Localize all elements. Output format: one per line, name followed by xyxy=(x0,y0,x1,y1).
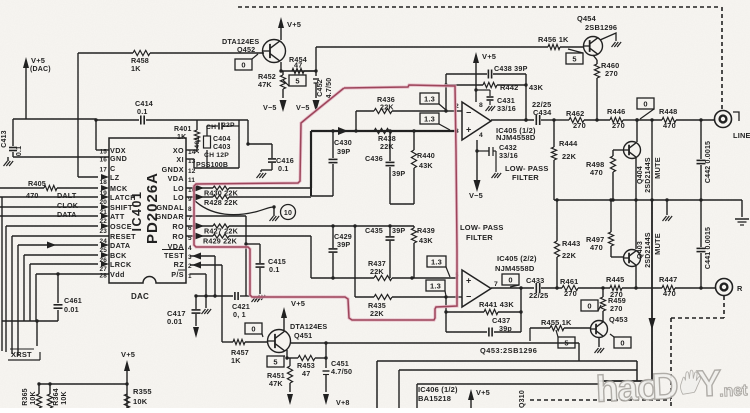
signal XRST xyxy=(8,349,40,360)
capacitor C413 0.1 xyxy=(1,130,23,156)
resistor R458 1K xyxy=(131,50,150,73)
resistor R365 10K xyxy=(22,384,42,408)
capacitor C429 39P xyxy=(329,224,352,279)
capacitor C432 33/16 xyxy=(475,143,518,172)
flag 5 (Q454) xyxy=(566,49,583,64)
V+5 arrow (IC406) xyxy=(468,388,490,408)
capacitor C430 39P xyxy=(329,129,352,196)
resistor R430 22K xyxy=(186,185,311,198)
ground xyxy=(486,106,496,111)
capacitor C442 0.0015 xyxy=(697,118,713,200)
wire Q454 emitter to line xyxy=(595,118,598,121)
flag 5 (R455) xyxy=(556,330,575,348)
transistor Q454 2SB1296 xyxy=(577,14,617,56)
capacitor C431 33/16 xyxy=(474,88,516,113)
IC401 left pin labels xyxy=(99,146,136,280)
wire op1 output xyxy=(491,118,534,121)
dashed boundary (bottom) xyxy=(530,399,671,401)
transistor Q404 2SD2144S (MUTE) xyxy=(613,118,662,200)
ground xyxy=(256,295,266,300)
wire xyxy=(37,382,128,385)
wire node xyxy=(194,294,233,308)
flag 0 (op2 out) xyxy=(502,274,519,287)
flag 1.3 (op2 minus) xyxy=(426,280,446,296)
label Q310 xyxy=(519,390,526,408)
capacitor C417 0.01 xyxy=(167,296,201,338)
wire Q403 emitter node xyxy=(634,286,637,289)
ground xyxy=(202,309,212,314)
wire BCK xyxy=(24,252,109,258)
resistor R446 270 xyxy=(607,107,637,130)
wire xyxy=(2,272,60,346)
flag 0 (line1) xyxy=(637,98,654,119)
resistor R440 43K xyxy=(390,129,435,204)
flag 0 (R459) xyxy=(581,300,601,311)
capacitor C421 0.1 xyxy=(232,292,252,319)
arc wire from pin 8 xyxy=(193,199,276,216)
IC401 right pin labels xyxy=(156,146,196,280)
capacitor C436 39P xyxy=(365,129,405,204)
transistor Q451 DTA124ES xyxy=(268,322,328,353)
crystal X401 xyxy=(194,126,211,168)
resistor R445 270 xyxy=(606,275,662,299)
capacitor C437 39p xyxy=(446,316,521,337)
capacitor C461 0.01 xyxy=(54,296,82,314)
signal DALT xyxy=(0,191,109,200)
resistor R437 22K xyxy=(311,236,458,281)
transistor Q403 2SD2144S (MUTE) xyxy=(624,200,663,287)
resistor R355 10K xyxy=(124,387,151,408)
red highlight path xyxy=(194,85,457,320)
flag 5 (Q451) xyxy=(267,356,285,367)
resistor R429 22K xyxy=(186,233,311,246)
resistor R401 1K xyxy=(174,120,200,150)
capacitor C451 4.7/50 xyxy=(323,341,353,407)
flag 1.3 (op1 plus) xyxy=(420,113,450,130)
op-amp U1 IC405 1/2 xyxy=(455,102,536,142)
wire GNDAR xyxy=(186,216,246,296)
wire LO to filter (thick) xyxy=(311,127,458,196)
resistor R442 43K xyxy=(444,74,543,122)
wire box2 xyxy=(399,370,637,408)
resistor R443 22K xyxy=(554,198,580,287)
resistor R497 470 xyxy=(586,198,624,257)
ground xyxy=(492,173,502,178)
capacitor C415 0.1 xyxy=(256,257,286,274)
V+5 arrow (bottom) xyxy=(121,350,135,408)
wire R427 node xyxy=(353,224,414,297)
wire xyxy=(244,242,260,294)
transistor Q452 DTA124ES xyxy=(222,37,286,63)
wire DATA pin25 xyxy=(18,242,109,249)
capacitor C416 0.1 xyxy=(268,156,294,173)
scan noise overlay xyxy=(0,0,1,1)
capacitor C414 0.1 xyxy=(135,99,153,125)
ground xyxy=(257,173,267,178)
capacitor C433 22/25 xyxy=(526,276,562,300)
resistor R364 10K xyxy=(47,384,68,408)
resistor R439 43K xyxy=(411,226,435,278)
left bus verticals xyxy=(2,197,36,356)
wire xyxy=(78,53,264,177)
wire Q451 emitter xyxy=(285,350,298,360)
ground (earth) xyxy=(735,219,749,225)
resistor R427 22K xyxy=(186,223,355,236)
ground bus wire xyxy=(554,198,742,215)
V+5 arrow (Q451) xyxy=(281,299,305,330)
resistor R436 22K xyxy=(354,95,446,133)
resistor R461 270 xyxy=(560,277,610,298)
DAC IC401 PD2026A xyxy=(109,138,186,301)
ground xyxy=(612,42,622,47)
flag 0 (Q452 base) xyxy=(235,54,258,70)
V+5 (DAC) supply arrow xyxy=(23,56,51,119)
wire RESET xyxy=(12,235,109,237)
label low-pass filter 1 xyxy=(505,164,549,182)
ground xyxy=(270,216,280,221)
wire OSCE xyxy=(6,223,109,229)
resistor R438 22K xyxy=(374,128,396,151)
op-amp U2 IC405 2/2 xyxy=(455,254,537,307)
resistor R447 470 xyxy=(659,275,715,298)
wire xyxy=(246,142,272,172)
signal DATA xyxy=(0,210,109,219)
wire mute line down xyxy=(651,120,653,200)
wire to R456 xyxy=(316,46,548,48)
resistor R454 47 xyxy=(289,55,316,74)
wire feedback2 xyxy=(519,286,522,332)
wire box1 xyxy=(377,361,637,408)
wire xyxy=(94,118,248,150)
MCK arrow xyxy=(101,185,109,191)
ground xyxy=(252,297,262,302)
label Q453 2SB1296 xyxy=(480,346,537,355)
resistor R405 470 xyxy=(0,179,98,200)
dashed boundary (right bottom) xyxy=(671,296,724,408)
flag 0 (Q451 base) xyxy=(245,323,263,337)
resistor R448 470 xyxy=(635,107,714,130)
capacitor C404 22P xyxy=(206,122,239,143)
capacitor C438 39P xyxy=(446,64,528,79)
wire xyxy=(279,62,317,73)
resistor R435 22K xyxy=(355,294,446,318)
flag 1.3 (op1 minus) xyxy=(420,93,446,110)
capacitor C441 0.0015 xyxy=(697,200,713,290)
label low-pass filter 2 xyxy=(460,223,504,242)
resistor R498 470 xyxy=(586,150,616,200)
wire op1 minus xyxy=(444,74,462,113)
wire xyxy=(741,200,743,217)
V-5 arrow (op1 pin4) xyxy=(469,140,483,200)
resistor R456 1K xyxy=(538,35,583,50)
flag 0 (Q453) xyxy=(610,334,631,348)
jack LINE L xyxy=(715,111,750,141)
ground xyxy=(663,216,673,221)
V+5 arrow (op1) xyxy=(473,52,496,102)
LZ arrow xyxy=(78,174,109,180)
signal CLOK xyxy=(0,201,109,210)
resistor R460 270 xyxy=(593,55,619,120)
node 10 (circled) xyxy=(281,205,296,220)
wire op2 output xyxy=(491,287,534,289)
wire Q454 collector to ground xyxy=(600,33,616,41)
wire mute2 down with arrow xyxy=(599,200,656,381)
wire xyxy=(186,120,248,168)
watermark haoDIY.net xyxy=(595,361,749,410)
capacitor C434 22/25 xyxy=(532,100,554,125)
resistor R428 22K xyxy=(186,194,311,208)
resistor R444 22K xyxy=(551,118,578,200)
resistor R455 1K xyxy=(530,318,590,341)
flag 1.3 (op2 plus) xyxy=(427,256,450,277)
capacitor C452 4.7/50 xyxy=(296,47,333,112)
wire op2 minus xyxy=(444,295,462,332)
ground xyxy=(595,348,605,353)
wire Vdd xyxy=(36,273,109,275)
dashed boundary (top) xyxy=(238,7,722,110)
transistor Q453 2SB1296 xyxy=(591,315,628,347)
IC406 box xyxy=(417,384,600,408)
V+5 arrow (Q452) xyxy=(278,17,301,40)
resistor R457 1K xyxy=(222,339,267,365)
wire RZ xyxy=(190,262,222,343)
resistor R462 270 xyxy=(554,109,610,130)
flag 5 (Q452) xyxy=(283,75,306,86)
capacitor C435 39P xyxy=(365,224,405,278)
jack LINE R xyxy=(716,279,744,296)
capacitor C403 12P xyxy=(196,144,231,169)
wire xyxy=(8,119,109,161)
wire TEST xyxy=(190,253,215,297)
ground xyxy=(4,161,14,166)
wire LRCK xyxy=(30,261,109,267)
resistor R459 270 and Q453 collector xyxy=(600,286,626,321)
resistor R451 47K xyxy=(267,358,293,405)
resistor R441 43K xyxy=(444,300,521,315)
wire Q451 collector line xyxy=(291,343,579,361)
resistor R453 47 xyxy=(297,355,326,378)
wire P/S xyxy=(190,274,206,296)
resistor R452 47K xyxy=(258,71,287,112)
